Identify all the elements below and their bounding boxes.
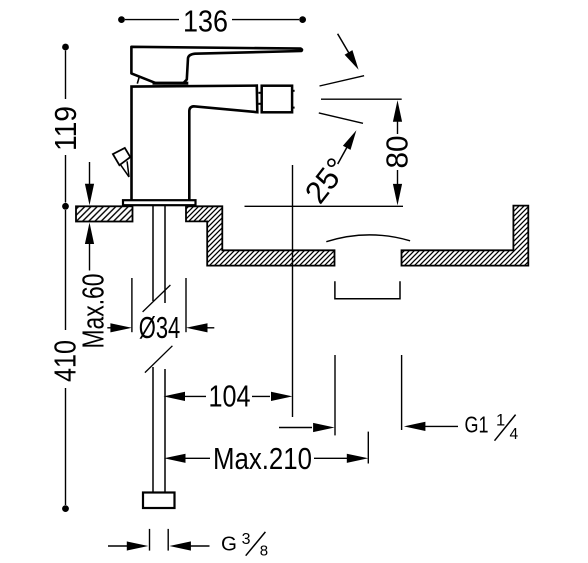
svg-text:80: 80	[380, 136, 415, 169]
svg-text:104: 104	[209, 379, 251, 414]
svg-text:1: 1	[496, 411, 505, 429]
svg-text:G: G	[221, 532, 237, 555]
svg-text:4: 4	[510, 426, 519, 443]
svg-text:Max.210: Max.210	[213, 441, 312, 476]
svg-text:Max.60: Max.60	[76, 274, 111, 349]
svg-text:Ø34: Ø34	[139, 310, 181, 345]
svg-text:8: 8	[260, 543, 268, 560]
svg-text:3: 3	[242, 531, 251, 548]
svg-text:136: 136	[183, 3, 228, 38]
svg-text:G1: G1	[465, 412, 489, 438]
svg-text:119: 119	[48, 106, 83, 151]
